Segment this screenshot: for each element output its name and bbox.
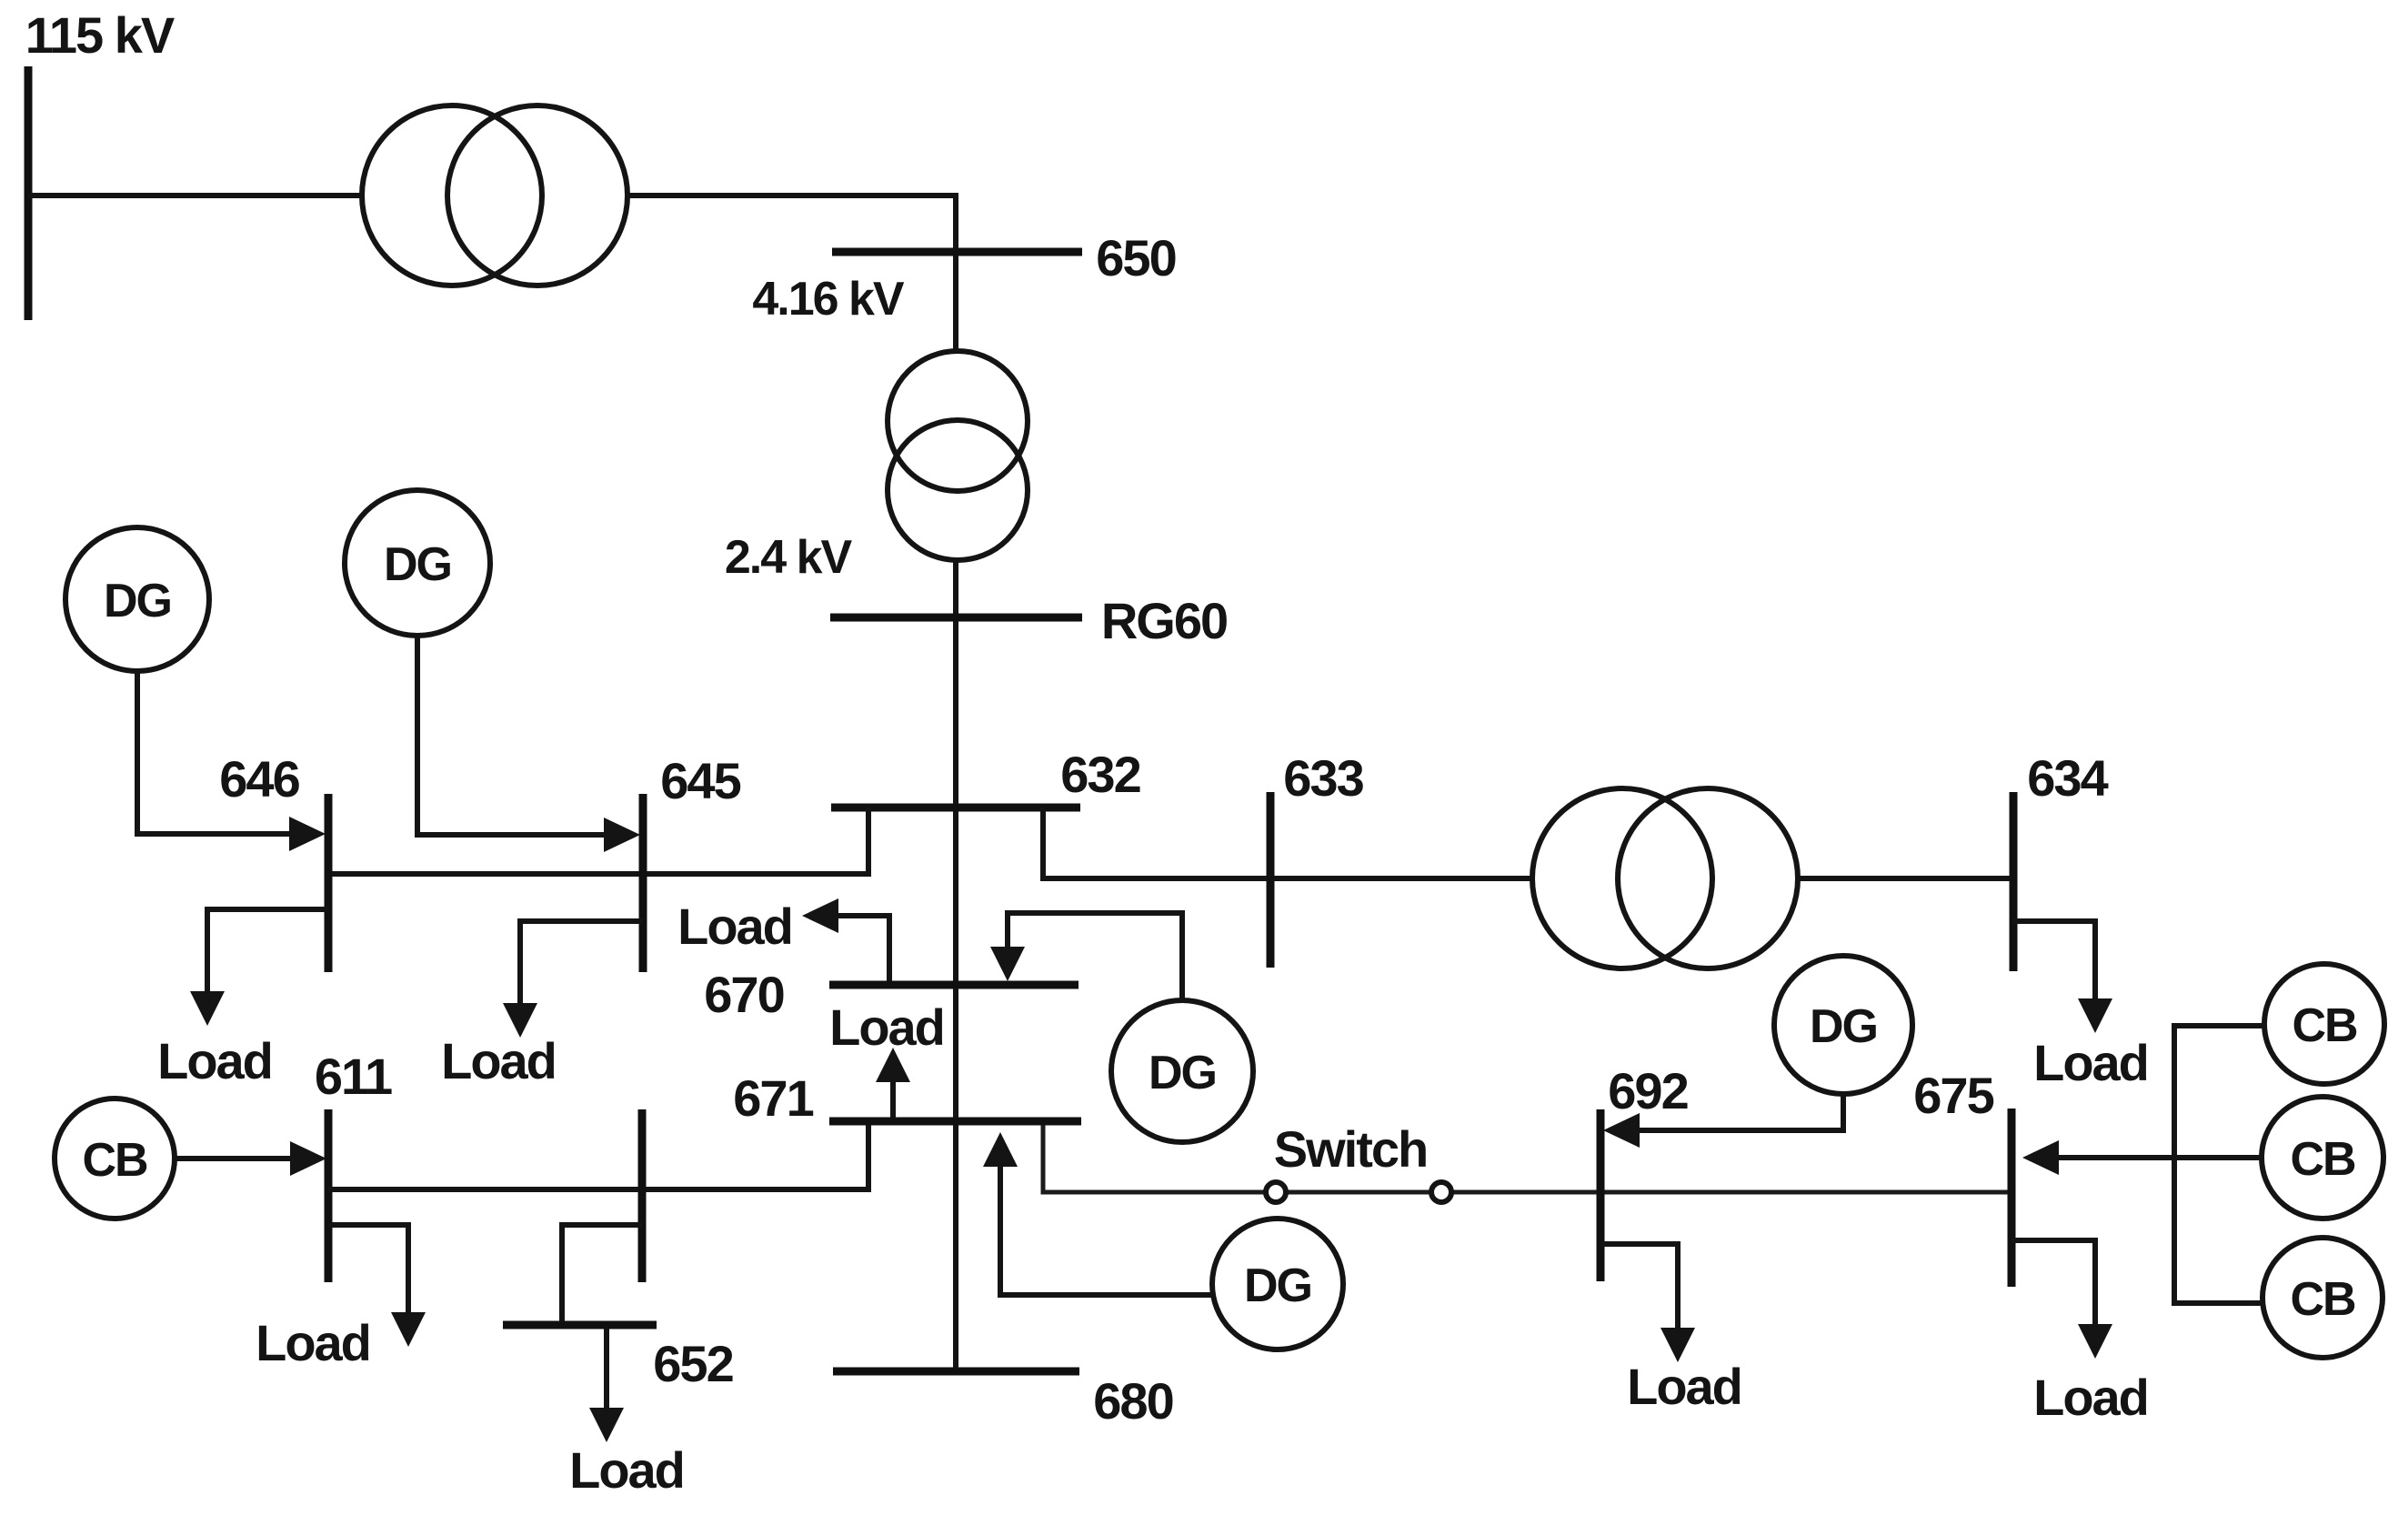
arrowhead CB into 675 (left) xyxy=(2022,1140,2059,1175)
wire corner down to bus 650 and transformer T2 xyxy=(953,193,958,351)
capacitor bank CB2 xyxy=(2264,964,2384,1084)
wire DG3 to bus 670 xyxy=(1008,913,1182,1000)
wire mid load stem xyxy=(890,1081,896,1119)
capacitor bank CB4 xyxy=(2263,1238,2383,1358)
svg-text:Load: Load xyxy=(157,1032,272,1089)
wire 645 load tap xyxy=(520,921,643,1003)
wire CB1 to bus 611 xyxy=(175,1156,291,1161)
svg-text:646: 646 xyxy=(219,750,299,808)
arrowhead 646 load (down) xyxy=(190,991,225,1026)
wire 692 load tap xyxy=(1600,1244,1678,1328)
wire CB bank to bus 675 xyxy=(2057,1155,2262,1160)
bus 671 xyxy=(829,1118,1081,1126)
wire 675 load tap xyxy=(2012,1240,2095,1324)
wire 611 to 684 to 671 xyxy=(328,1125,868,1189)
svg-text:Load: Load xyxy=(2033,1034,2148,1091)
bus 633 xyxy=(1267,792,1275,968)
wire DG2 to bus 645 xyxy=(417,636,605,835)
transformer T2 primary winding xyxy=(888,351,1028,491)
svg-text:Load: Load xyxy=(1627,1358,1741,1415)
wire main feeder T2 to bus 680 xyxy=(953,560,958,1371)
svg-text:632: 632 xyxy=(1060,746,1139,803)
transformer T3 secondary winding xyxy=(1618,788,1798,968)
arrowhead DG2 into 645 (right) xyxy=(604,818,640,852)
arrowhead mid load (up) xyxy=(876,1048,910,1082)
svg-text:Load: Load xyxy=(441,1032,556,1089)
wire CB bank riser xyxy=(2174,1026,2264,1303)
bus 632 xyxy=(831,804,1080,812)
bus source 115kV xyxy=(25,66,33,320)
arrowhead 645 load (down) xyxy=(503,1003,537,1038)
svg-text:DG: DG xyxy=(384,538,451,591)
svg-text:CB: CB xyxy=(2290,1133,2355,1186)
svg-text:Load: Load xyxy=(677,898,792,955)
wire 611 load tap xyxy=(328,1225,408,1312)
wire 646 load tap xyxy=(207,909,328,991)
bus 650 xyxy=(832,248,1082,256)
svg-text:652: 652 xyxy=(653,1335,732,1392)
svg-text:CB: CB xyxy=(2290,1273,2355,1326)
capacitor bank CB3 xyxy=(2262,1097,2383,1219)
svg-text:CB: CB xyxy=(82,1134,147,1187)
svg-text:692: 692 xyxy=(1608,1062,1687,1119)
svg-text:Load: Load xyxy=(2033,1369,2148,1426)
wire 632 to 633-634 feeder (L drop) xyxy=(1043,808,1535,878)
bus 645 xyxy=(639,794,647,972)
wire DG5 to bus 671 xyxy=(1000,1166,1213,1295)
wire 652 load stem xyxy=(604,1329,609,1408)
svg-text:RG60: RG60 xyxy=(1101,592,1227,649)
bus 611 xyxy=(325,1109,333,1282)
generator DG5 xyxy=(1212,1219,1343,1349)
svg-text:DG: DG xyxy=(1149,1047,1216,1099)
bus 646 xyxy=(325,794,333,972)
wire 632 to 645 feeder (L drop) xyxy=(326,808,868,874)
generator DG1 xyxy=(65,527,209,671)
svg-text:DG: DG xyxy=(104,575,171,627)
generator DG2 xyxy=(345,490,490,636)
arrowhead DG3 into 670 (down) xyxy=(990,947,1025,981)
arrowhead DG5 into 671 (up) xyxy=(983,1132,1018,1167)
bus 680 xyxy=(833,1368,1079,1376)
bus RG60 xyxy=(830,614,1082,622)
svg-text:671: 671 xyxy=(733,1069,813,1127)
wire T3 to bus 634 xyxy=(1798,876,2013,881)
svg-text:115 kV: 115 kV xyxy=(25,6,175,64)
switch contact node a xyxy=(1266,1182,1286,1202)
svg-text:Load: Load xyxy=(829,998,944,1056)
arrowhead 692 load (down) xyxy=(1661,1328,1695,1362)
svg-text:Load: Load xyxy=(569,1441,684,1499)
wire switch line 671 to 675 xyxy=(1043,1125,2012,1192)
arrowhead 675 load (down) xyxy=(2078,1324,2112,1359)
wire DG4 to bus 692 xyxy=(1638,1094,1843,1130)
arrowhead DG1 into 646 (right) xyxy=(289,817,326,851)
bus 675 xyxy=(2008,1109,2016,1287)
wire DG1 to bus 646 xyxy=(137,671,290,834)
svg-text:Switch: Switch xyxy=(1274,1120,1427,1178)
svg-text:4.16 kV: 4.16 kV xyxy=(752,273,905,326)
wire T1 to corner xyxy=(627,193,953,198)
bus 670 xyxy=(829,981,1079,989)
transformer T2 secondary winding xyxy=(888,420,1028,560)
svg-text:Load: Load xyxy=(256,1314,370,1371)
switch contact node b xyxy=(1431,1182,1451,1202)
arrowhead 611 load (down) xyxy=(391,1312,426,1347)
wire 684 to 652 xyxy=(562,1225,642,1321)
transformer T3 primary winding xyxy=(1532,788,1712,968)
capacitor bank CB1 xyxy=(55,1099,175,1219)
svg-text:633: 633 xyxy=(1283,749,1363,807)
arrowhead DG4 into 692 (left) xyxy=(1603,1113,1640,1148)
svg-text:634: 634 xyxy=(2027,749,2108,807)
generator DG3 xyxy=(1111,1000,1253,1142)
svg-text:675: 675 xyxy=(1913,1067,1993,1124)
bus 684 xyxy=(638,1109,647,1282)
svg-text:CB: CB xyxy=(2292,999,2357,1052)
svg-text:DG: DG xyxy=(1810,1000,1877,1053)
bus 692 xyxy=(1597,1109,1605,1281)
arrowhead 634 load (down) xyxy=(2078,998,2112,1033)
bus 634 xyxy=(2010,792,2018,971)
generator DG4 xyxy=(1774,956,1912,1094)
transformer T1 primary winding xyxy=(362,105,542,286)
wire 634 load tap xyxy=(2013,921,2095,998)
transformer T1 secondary winding xyxy=(447,105,627,286)
wire source to transformer T1 xyxy=(28,193,363,198)
svg-text:DG: DG xyxy=(1244,1259,1311,1312)
svg-text:2.4 kV: 2.4 kV xyxy=(725,531,853,584)
svg-text:611: 611 xyxy=(315,1048,392,1105)
arrowhead 670 upper load (left) xyxy=(802,898,838,933)
svg-text:670: 670 xyxy=(704,966,783,1023)
arrowhead 652 load (down) xyxy=(589,1408,624,1442)
bus 652 xyxy=(503,1321,657,1329)
arrowhead CB1 into 611 (right) xyxy=(290,1141,326,1176)
svg-text:650: 650 xyxy=(1096,229,1175,286)
wire 670 upper load tap xyxy=(838,916,889,981)
svg-text:680: 680 xyxy=(1093,1372,1172,1430)
svg-text:645: 645 xyxy=(660,752,740,809)
